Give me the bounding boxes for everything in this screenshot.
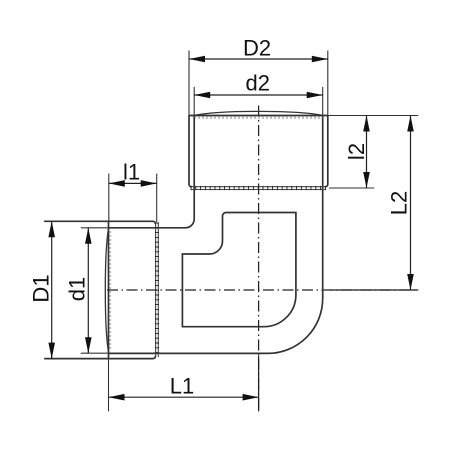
svg-text:l2: l2: [344, 143, 369, 160]
svg-text:l1: l1: [123, 159, 140, 184]
svg-text:L2: L2: [387, 191, 412, 215]
svg-text:d1: d1: [65, 277, 90, 301]
svg-text:D2: D2: [243, 36, 271, 61]
svg-text:L1: L1: [170, 374, 194, 399]
svg-text:d2: d2: [245, 71, 269, 96]
svg-text:D1: D1: [28, 274, 53, 302]
